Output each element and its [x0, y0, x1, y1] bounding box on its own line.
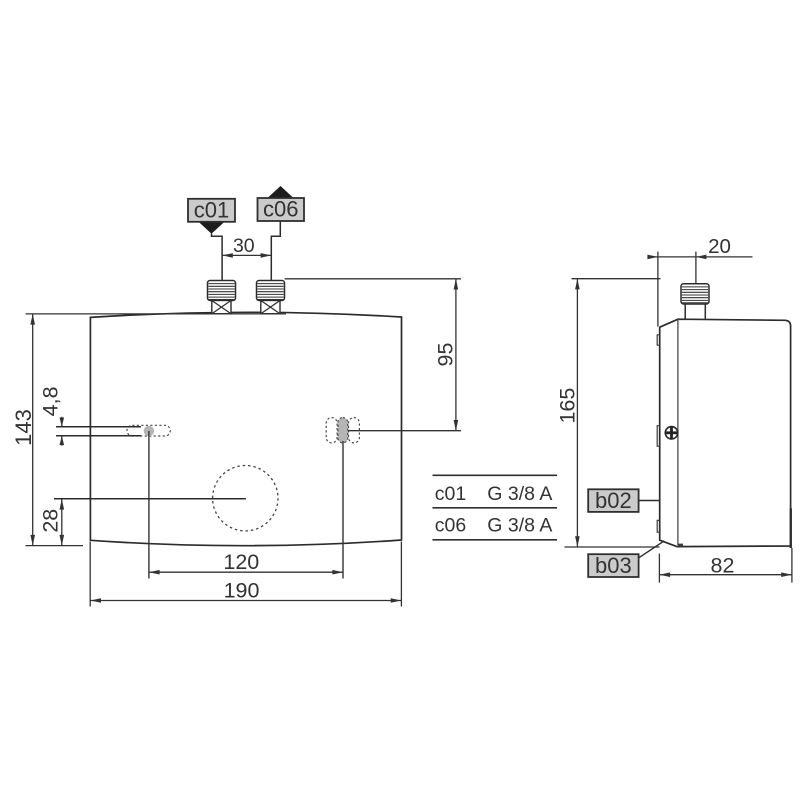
ext line from outlet down [342, 441, 344, 579]
outlet pill middle grey [338, 418, 348, 443]
svg-text:c06: c06 [435, 515, 466, 537]
svg-text:143: 143 [11, 409, 36, 446]
table line top [433, 474, 558, 476]
pipe c06 x-box [261, 301, 280, 314]
svg-text:c06: c06 [263, 197, 298, 222]
leader from c06 to right pipe [271, 221, 280, 281]
side view inner edge [677, 320, 679, 546]
leader from b03 [639, 541, 665, 558]
side view middle clip [657, 426, 660, 447]
dimension 20 [647, 235, 752, 327]
side pipe neck [685, 304, 705, 319]
dimension 30 [222, 235, 271, 258]
dimension 95 [348, 279, 461, 431]
label box c06 [258, 186, 305, 222]
svg-text:G 3/8 A: G 3/8 A [487, 483, 552, 505]
svg-text:30: 30 [233, 235, 255, 257]
dimension 165 [555, 279, 660, 547]
ext line from slot dot down [148, 431, 150, 579]
slot left solid edges [56, 427, 141, 436]
svg-text:190: 190 [224, 578, 260, 602]
label box b02 [588, 488, 638, 513]
svg-text:c01: c01 [435, 483, 466, 505]
dimension 28 [38, 499, 64, 546]
slot left dotted pill [127, 425, 170, 436]
svg-text:82: 82 [711, 553, 735, 577]
side view top clip [657, 335, 660, 345]
side pipe threads [681, 284, 709, 304]
label box b03 [588, 553, 638, 578]
table row c01 [435, 483, 553, 505]
foot bottom front [678, 544, 683, 547]
dimension 120 [149, 550, 343, 575]
label box c01 [188, 198, 235, 234]
svg-text:G 3/8 A: G 3/8 A [487, 515, 552, 537]
pipe c01 x-box [212, 301, 231, 314]
outlet pill left dotted [326, 418, 337, 443]
leader from b02 [639, 500, 660, 502]
slot grey dot [144, 426, 154, 436]
leader from c01 to left pipe [212, 234, 223, 282]
center reference line [54, 498, 246, 500]
table line middle [433, 507, 558, 509]
svg-text:c01: c01 [194, 198, 229, 223]
svg-text:20: 20 [708, 235, 731, 258]
table row c06 [435, 515, 553, 537]
wall bracket right edge [790, 508, 792, 548]
svg-text:120: 120 [223, 550, 259, 574]
outlet pill right dotted [349, 418, 360, 443]
side view bottom clip [657, 520, 660, 532]
svg-text:95: 95 [434, 343, 458, 367]
svg-text:b03: b03 [595, 553, 632, 578]
svg-text:b02: b02 [595, 488, 632, 513]
dimension 82 [659, 548, 792, 583]
svg-text:165: 165 [555, 388, 579, 424]
svg-text:28: 28 [38, 509, 62, 533]
svg-text:4,8: 4,8 [38, 386, 62, 416]
dimension 143 [11, 314, 286, 546]
dimension 4,8 [38, 386, 64, 445]
screw [665, 427, 677, 439]
side view body [660, 319, 791, 546]
pipe c06 threads [257, 281, 285, 301]
dimension 190 [90, 542, 401, 607]
pipe c01 threads [208, 281, 236, 301]
front view body [90, 312, 401, 545]
table line bottom [433, 539, 558, 541]
dotted circle center [213, 466, 278, 531]
projection line pipe top to right [285, 278, 461, 280]
